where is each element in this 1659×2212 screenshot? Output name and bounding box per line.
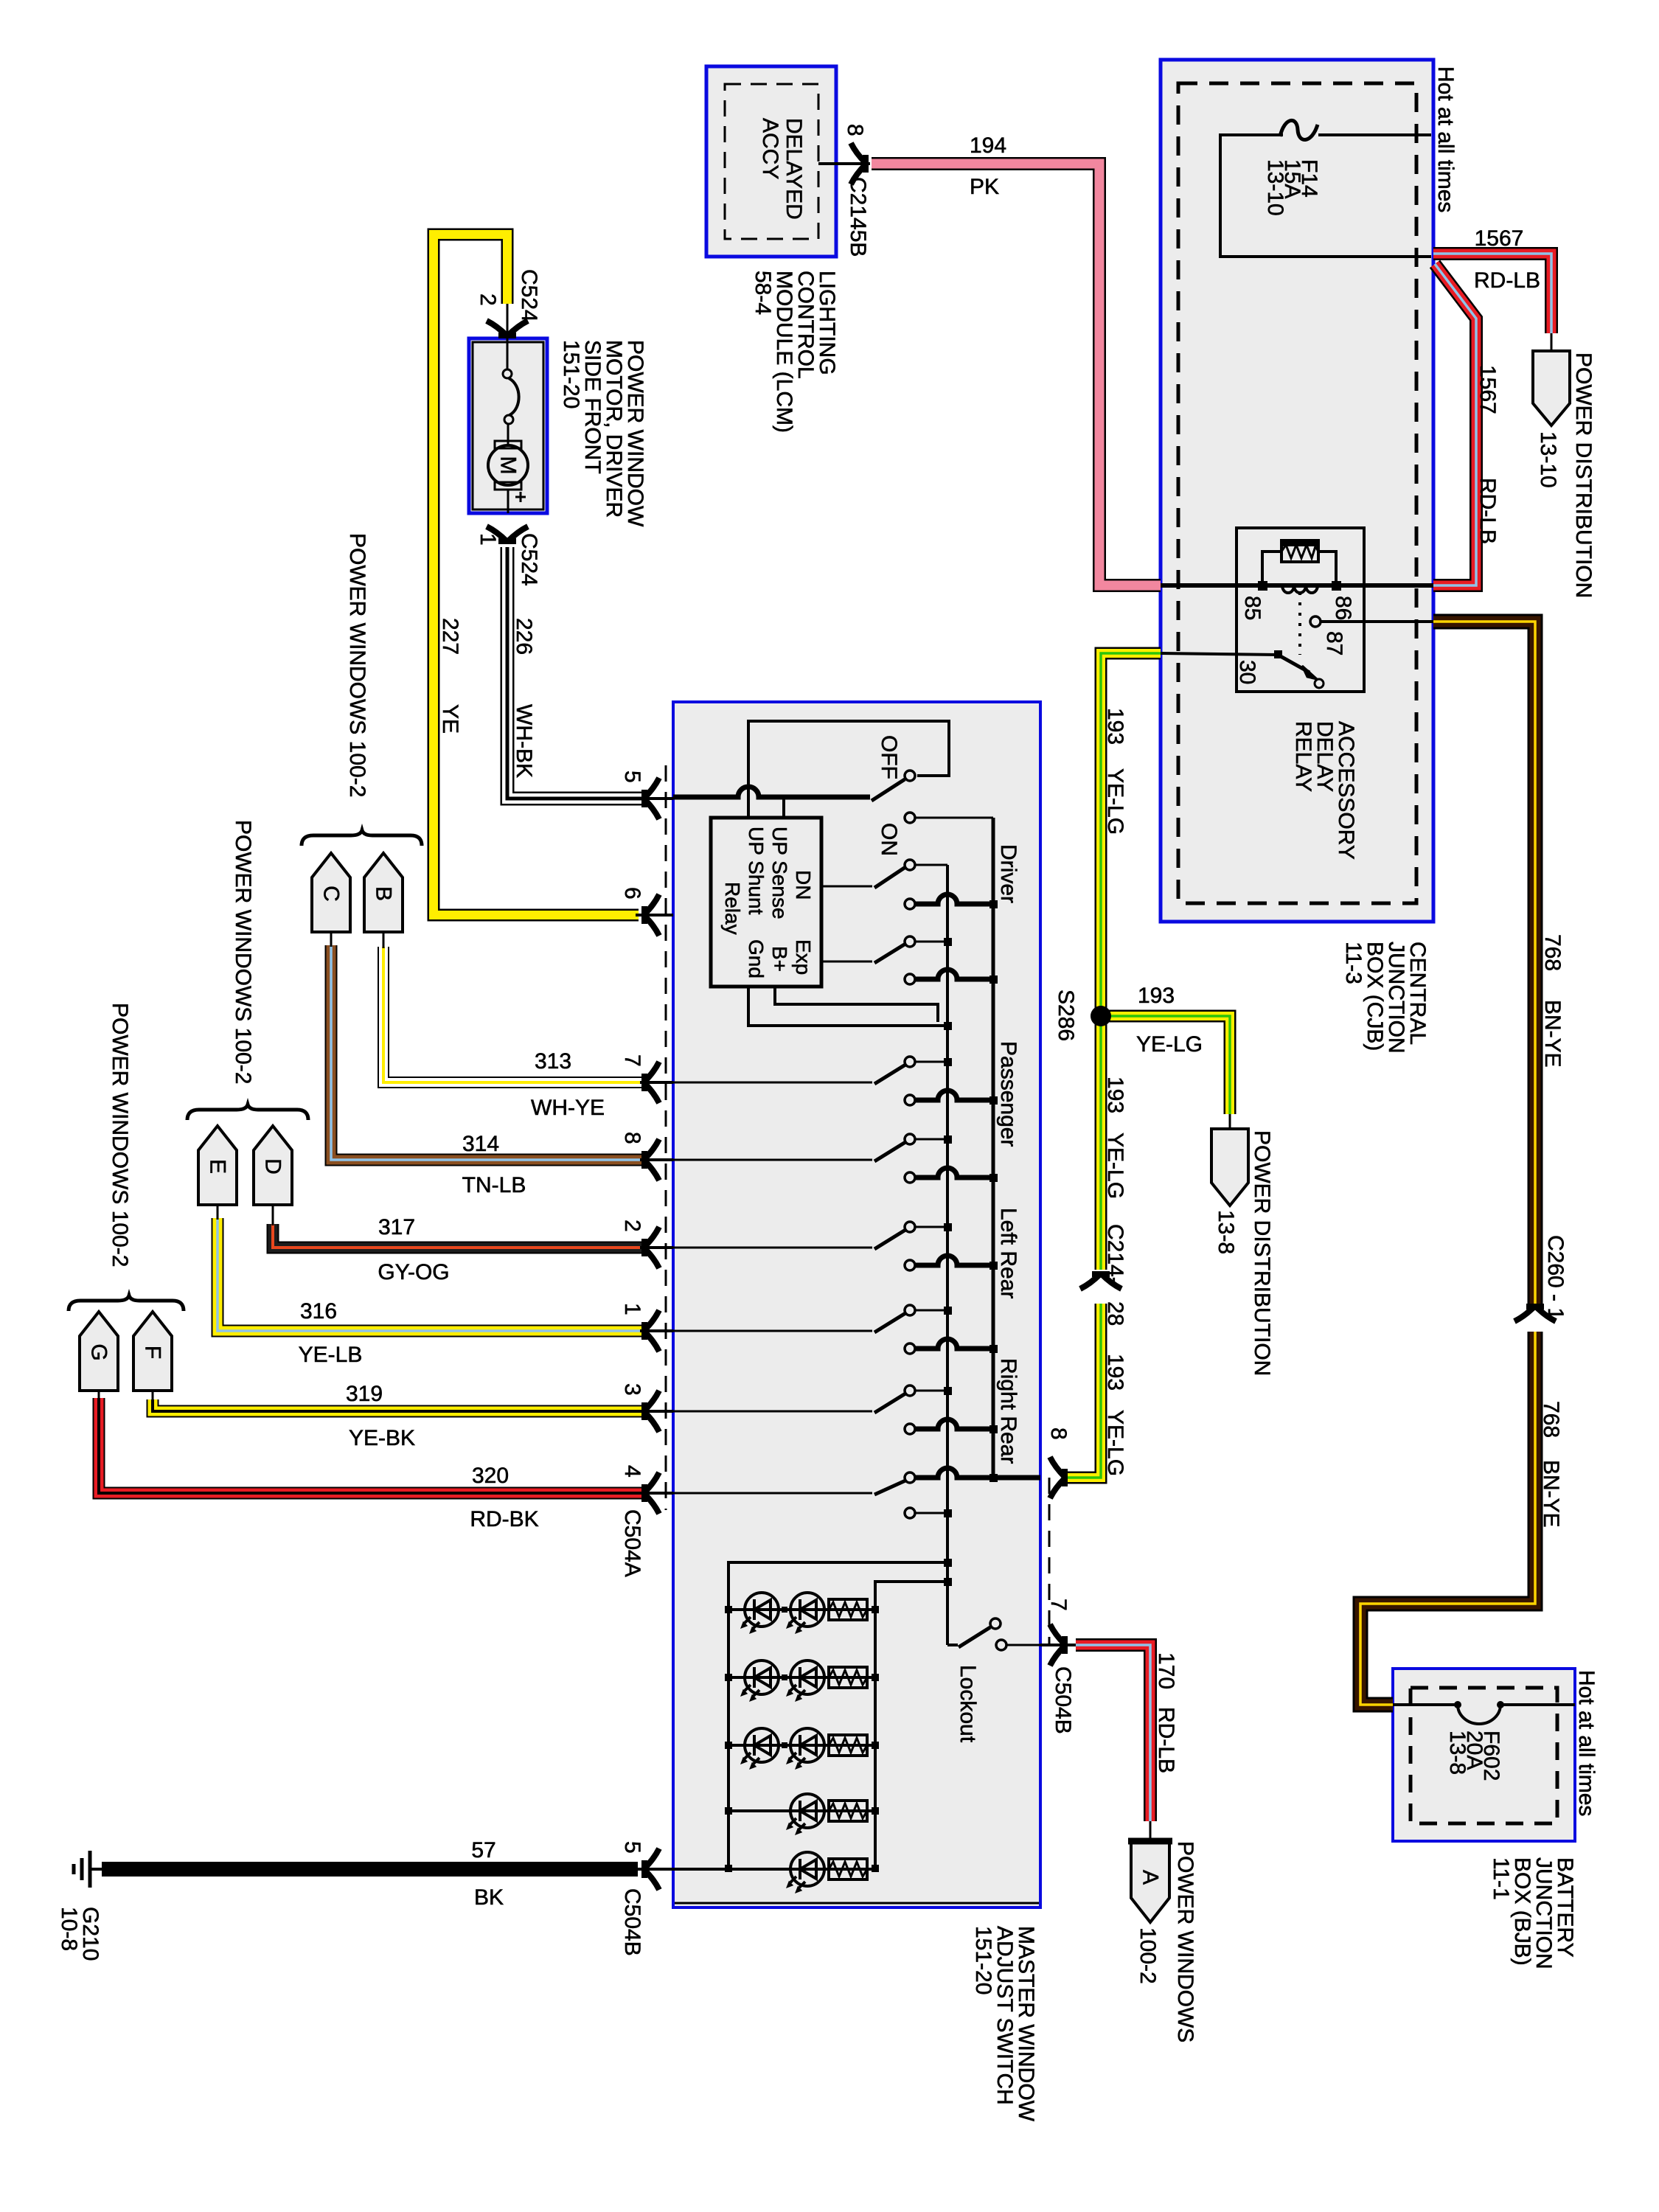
svg-text:DELAYED: DELAYED xyxy=(782,118,806,220)
svg-text:768: 768 xyxy=(1539,1401,1563,1438)
svg-text:317: 317 xyxy=(378,1215,415,1239)
master switch pin lead 5 xyxy=(639,797,673,800)
wire 226 WH-BK xyxy=(507,547,643,799)
pin 4 arrow xyxy=(641,1472,659,1514)
svg-text:DN: DN xyxy=(792,870,815,900)
connector C260-1 arrow xyxy=(1514,1304,1556,1321)
svg-text:193: 193 xyxy=(1103,1077,1127,1113)
wire 1567 RD-LB lower branch xyxy=(1433,264,1476,585)
svg-text:227: 227 xyxy=(438,618,462,655)
wire 317 GY-OG xyxy=(273,1224,643,1248)
svg-text:7: 7 xyxy=(1046,1599,1071,1611)
right pin 7 arrow xyxy=(1050,1624,1068,1666)
svg-text:BN-YE: BN-YE xyxy=(1539,1460,1563,1528)
pin 2 arrow xyxy=(641,1227,659,1268)
svg-text:28: 28 xyxy=(1103,1301,1127,1326)
ON switch xyxy=(821,860,947,888)
master switch pin lead 1 xyxy=(640,1329,673,1332)
LED illumination network rails xyxy=(728,1562,947,1869)
pentagon connector E xyxy=(198,1126,237,1220)
brace over E D xyxy=(187,1105,308,1120)
pin 3 arrow xyxy=(641,1391,659,1432)
master window adjust switch box xyxy=(673,702,1040,1907)
splice S286 xyxy=(1091,1006,1111,1026)
svg-text:Driver: Driver xyxy=(996,844,1020,903)
svg-text:Hot at all times: Hot at all times xyxy=(1433,66,1458,212)
wire 193 YE-LG main xyxy=(1066,653,1161,1478)
connector C2145B arrow xyxy=(851,143,869,184)
relay pin 86 junction xyxy=(1332,581,1341,591)
svg-text:WH-BK: WH-BK xyxy=(512,704,536,778)
svg-text:BN-YE: BN-YE xyxy=(1540,1000,1565,1068)
svg-text:8: 8 xyxy=(843,124,867,136)
pentagon connector B xyxy=(364,853,403,948)
svg-text:E: E xyxy=(206,1159,230,1174)
passenger down thick contact xyxy=(905,1172,915,1183)
wire 170 RD-LB xyxy=(1076,1645,1150,1821)
svg-text:11-3: 11-3 xyxy=(1341,942,1366,984)
svg-text:C504A: C504A xyxy=(620,1509,644,1577)
OFF switch blade xyxy=(872,779,905,801)
svg-text:57: 57 xyxy=(471,1838,495,1863)
passenger up switch xyxy=(673,1057,947,1084)
pin 6 arrow xyxy=(641,894,659,936)
svg-text:YE: YE xyxy=(438,704,462,734)
svg-text:POWER WINDOWS 100-2: POWER WINDOWS 100-2 xyxy=(231,820,255,1084)
module feed stub xyxy=(782,797,785,818)
svg-text:5: 5 xyxy=(620,1841,644,1854)
svg-text:POWER WINDOWS 100-2: POWER WINDOWS 100-2 xyxy=(345,533,369,797)
svg-text:B+: B+ xyxy=(768,946,791,972)
master switch pin lead 6 xyxy=(636,914,673,917)
connector C524 pin 1 arrow xyxy=(487,526,528,544)
svg-text:193: 193 xyxy=(1103,1354,1127,1391)
wire 313 WH-YE xyxy=(383,947,643,1082)
fuse F602 circuit xyxy=(1393,1705,1575,1724)
power windows arrow A xyxy=(1128,1821,1172,1922)
master switch right pin 8 arrow xyxy=(1050,1457,1068,1498)
svg-text:151-20: 151-20 xyxy=(971,1926,995,1994)
svg-text:YE-LG: YE-LG xyxy=(1103,1410,1127,1476)
wire 314 TN-LB xyxy=(331,945,643,1160)
passenger down switch xyxy=(673,1134,947,1161)
svg-text:Right Rear: Right Rear xyxy=(996,1358,1020,1464)
svg-text:F: F xyxy=(141,1346,165,1359)
wire 316 YE-LB xyxy=(218,1218,643,1331)
wire 1567 RD-LB upper xyxy=(1433,254,1551,333)
svg-text:Exp: Exp xyxy=(792,939,815,975)
svg-text:8: 8 xyxy=(620,1132,644,1144)
svg-text:RD-LB: RD-LB xyxy=(1474,268,1540,293)
bus A junctions xyxy=(990,900,998,1482)
fuse F14 circuit xyxy=(1220,120,1431,257)
svg-text:5: 5 xyxy=(620,771,644,783)
connector C504A dashed line xyxy=(665,765,667,1510)
svg-text:G: G xyxy=(87,1343,111,1360)
svg-text:A: A xyxy=(1138,1870,1163,1885)
brace over G F xyxy=(69,1295,184,1311)
LED row 1 xyxy=(728,1593,875,1634)
LED chain junctions xyxy=(782,1607,787,1748)
svg-text:YE-BK: YE-BK xyxy=(349,1426,415,1450)
relay pin 85 junction xyxy=(1258,581,1267,591)
accessory delay relay box xyxy=(1237,528,1364,692)
power window motor box xyxy=(469,338,547,513)
svg-text:POWER WINDOWS: POWER WINDOWS xyxy=(1173,1841,1197,2042)
relay coil line 85-86 xyxy=(1161,583,1433,588)
lockout switch xyxy=(947,1618,1040,1650)
svg-text:M: M xyxy=(496,456,521,475)
svg-text:13-10: 13-10 xyxy=(1536,431,1560,488)
svg-text:POWER DISTRIBUTION: POWER DISTRIBUTION xyxy=(1571,352,1596,598)
relay armature dotted link xyxy=(1298,592,1301,655)
svg-text:GY-OG: GY-OG xyxy=(378,1260,449,1284)
svg-text:226: 226 xyxy=(512,618,536,655)
svg-text:YE-LG: YE-LG xyxy=(1103,768,1127,835)
svg-text:1: 1 xyxy=(476,533,500,546)
svg-text:WH-YE: WH-YE xyxy=(531,1096,605,1120)
svg-text:1: 1 xyxy=(620,1303,644,1315)
svg-text:POWER WINDOWS 100-2: POWER WINDOWS 100-2 xyxy=(108,1003,132,1267)
passenger up thick contact xyxy=(905,1095,915,1105)
svg-text:3: 3 xyxy=(620,1383,644,1396)
driver down thick contact xyxy=(905,974,915,984)
svg-text:UP Sense: UP Sense xyxy=(768,827,791,919)
power distribution arrow 13-8 xyxy=(1211,1114,1248,1206)
master switch pin lead 8 xyxy=(640,1158,673,1161)
OFF switch feed loop xyxy=(748,721,949,818)
supply bus from pin 5 xyxy=(673,787,870,797)
OFF switch contact xyxy=(905,771,915,781)
wire 57 BK xyxy=(102,1862,638,1877)
svg-text:Passenger: Passenger xyxy=(996,1041,1020,1147)
master switch pin lead 5 bottom xyxy=(638,1868,673,1871)
svg-text:YE-LG: YE-LG xyxy=(1136,1032,1203,1057)
svg-text:YE-LB: YE-LB xyxy=(299,1343,363,1367)
svg-text:RD-BK: RD-BK xyxy=(470,1507,538,1531)
svg-text:11-1: 11-1 xyxy=(1489,1857,1513,1900)
svg-text:100-2: 100-2 xyxy=(1135,1927,1160,1984)
svg-text:ACCY: ACCY xyxy=(758,118,782,179)
left rear up switch xyxy=(673,1222,947,1249)
svg-text:13-8: 13-8 xyxy=(1214,1210,1238,1254)
battery junction box BJB xyxy=(1393,1669,1575,1841)
svg-text:UP Shunt: UP Shunt xyxy=(745,827,768,915)
pin 7 arrow xyxy=(641,1062,659,1103)
central junction box CJB xyxy=(1161,60,1433,922)
wire 227 YE xyxy=(434,234,639,915)
wire 193 YE-LG branch to power distribution xyxy=(1101,1016,1230,1114)
svg-text:PK: PK xyxy=(970,175,999,199)
relay coil resistor xyxy=(1262,539,1336,581)
svg-text:170: 170 xyxy=(1154,1652,1178,1689)
svg-text:313: 313 xyxy=(535,1049,571,1074)
svg-text:C2145B: C2145B xyxy=(846,177,870,257)
svg-text:10-8: 10-8 xyxy=(57,1907,81,1951)
right rear down switch xyxy=(673,1472,947,1518)
svg-text:C504B: C504B xyxy=(1051,1666,1075,1734)
svg-text:86: 86 xyxy=(1331,596,1355,620)
svg-text:320: 320 xyxy=(472,1464,509,1488)
svg-text:POWER DISTRIBUTION: POWER DISTRIBUTION xyxy=(1250,1130,1274,1376)
svg-text:13-10: 13-10 xyxy=(1263,159,1287,216)
svg-text:OFF: OFF xyxy=(877,735,901,779)
svg-text:Gnd: Gnd xyxy=(745,939,768,978)
master switch pin lead 3 xyxy=(640,1410,673,1413)
master switch right pin 7 lead xyxy=(1040,1644,1076,1646)
pin 8 output thick line xyxy=(916,1468,1040,1478)
pin 5 arrow xyxy=(641,778,659,819)
bus B vertical xyxy=(946,865,949,1645)
svg-text:C524: C524 xyxy=(517,269,541,322)
master switch pin lead 7 xyxy=(640,1081,673,1084)
connector C524 pin 2 arrow xyxy=(487,321,528,338)
svg-text:87: 87 xyxy=(1322,631,1346,655)
left rear up thick contact xyxy=(905,1260,915,1270)
pentagon connector F xyxy=(133,1312,172,1401)
window module box xyxy=(711,818,821,987)
svg-text:ON: ON xyxy=(877,823,901,856)
svg-text:B: B xyxy=(372,886,396,901)
master switch pin lead 4 xyxy=(640,1492,673,1495)
connector C214-28 arrow xyxy=(1080,1271,1121,1289)
LED rail junctions xyxy=(725,1606,879,1872)
svg-text:194: 194 xyxy=(970,133,1006,158)
svg-text:2: 2 xyxy=(620,1220,644,1232)
left rear down switch xyxy=(673,1305,947,1332)
svg-text:Relay: Relay xyxy=(721,882,744,935)
wire 768 BN-YE xyxy=(1360,622,1535,1705)
pentagon connector C xyxy=(312,853,350,947)
svg-text:S286: S286 xyxy=(1054,990,1078,1041)
svg-text:8: 8 xyxy=(1046,1427,1071,1440)
svg-text:Left Rear: Left Rear xyxy=(996,1208,1020,1298)
pentagon connector G xyxy=(80,1312,118,1399)
svg-text:319: 319 xyxy=(346,1382,383,1406)
svg-text:1567: 1567 xyxy=(1475,365,1500,414)
pin 5 bottom arrow xyxy=(641,1848,659,1890)
svg-text:RELAY: RELAY xyxy=(1291,721,1315,792)
svg-text:4: 4 xyxy=(620,1465,644,1478)
svg-text:1567: 1567 xyxy=(1475,226,1524,251)
svg-text:193: 193 xyxy=(1103,708,1127,745)
svg-text:C: C xyxy=(319,886,344,902)
svg-text:314: 314 xyxy=(462,1132,499,1156)
LED row 4 xyxy=(728,1794,875,1835)
LED row 3 xyxy=(728,1728,875,1770)
LED row 5 xyxy=(673,1852,875,1893)
svg-text:C260 - 1: C260 - 1 xyxy=(1543,1235,1568,1320)
svg-text:193: 193 xyxy=(1138,984,1175,1008)
svg-text:Lockout: Lockout xyxy=(956,1665,980,1743)
relay pin 30 lead xyxy=(1161,653,1278,655)
svg-text:C214-: C214- xyxy=(1103,1224,1127,1284)
pin 8 arrow xyxy=(641,1139,659,1180)
svg-text:TN-LB: TN-LB xyxy=(462,1173,526,1197)
right rear up switch xyxy=(673,1385,947,1413)
bus B junctions xyxy=(944,938,952,1586)
connector C504B dashed line xyxy=(1048,1478,1051,1645)
motor internals xyxy=(488,338,528,513)
svg-text:7: 7 xyxy=(620,1054,644,1067)
svg-text:RD-LB: RD-LB xyxy=(1475,478,1500,544)
wire 194 PK xyxy=(872,164,1161,585)
LCM pin 8 lead xyxy=(818,162,870,165)
svg-text:D: D xyxy=(261,1158,285,1175)
svg-text:151-20: 151-20 xyxy=(559,340,583,408)
svg-text:RD-LB: RD-LB xyxy=(1154,1707,1178,1773)
master switch pin lead 2 xyxy=(640,1246,673,1249)
pentagon connector D xyxy=(254,1126,292,1225)
brace over C B xyxy=(302,830,422,846)
driver up thick contact xyxy=(905,899,915,909)
svg-text:BK: BK xyxy=(474,1885,504,1910)
ON contact to bus A xyxy=(905,813,915,823)
svg-text:Hot at all times: Hot at all times xyxy=(1574,1670,1599,1816)
svg-text:C524: C524 xyxy=(517,533,541,586)
relay switch blade xyxy=(1274,650,1282,658)
svg-text:316: 316 xyxy=(300,1299,337,1324)
LED row 2 xyxy=(728,1660,875,1702)
bus A vertical xyxy=(992,818,995,1478)
wire 319 YE-BK xyxy=(153,1399,643,1411)
right rear up thick contact xyxy=(905,1424,915,1434)
svg-text:768: 768 xyxy=(1540,934,1565,971)
lighting control module LCM box xyxy=(706,66,836,257)
svg-text:2: 2 xyxy=(476,293,500,306)
left rear down thick contact xyxy=(905,1343,915,1354)
driver down switch xyxy=(821,936,947,963)
svg-text:30: 30 xyxy=(1235,660,1259,684)
svg-text:YE-LG: YE-LG xyxy=(1103,1133,1127,1199)
relay coil winding xyxy=(1282,585,1318,593)
relay pin 87 contact xyxy=(1310,616,1321,627)
module output stubs xyxy=(748,987,947,1026)
svg-text:6: 6 xyxy=(620,887,644,900)
svg-text:85: 85 xyxy=(1240,596,1265,620)
wire 320 RD-BK xyxy=(99,1398,643,1493)
svg-text:58-4: 58-4 xyxy=(751,271,775,315)
pin 1 arrow xyxy=(641,1310,659,1352)
svg-text:13-8: 13-8 xyxy=(1445,1731,1470,1775)
power distribution arrow 13-10 xyxy=(1533,333,1570,425)
ground G210 xyxy=(74,1851,103,1888)
svg-text:C504B: C504B xyxy=(620,1888,644,1956)
